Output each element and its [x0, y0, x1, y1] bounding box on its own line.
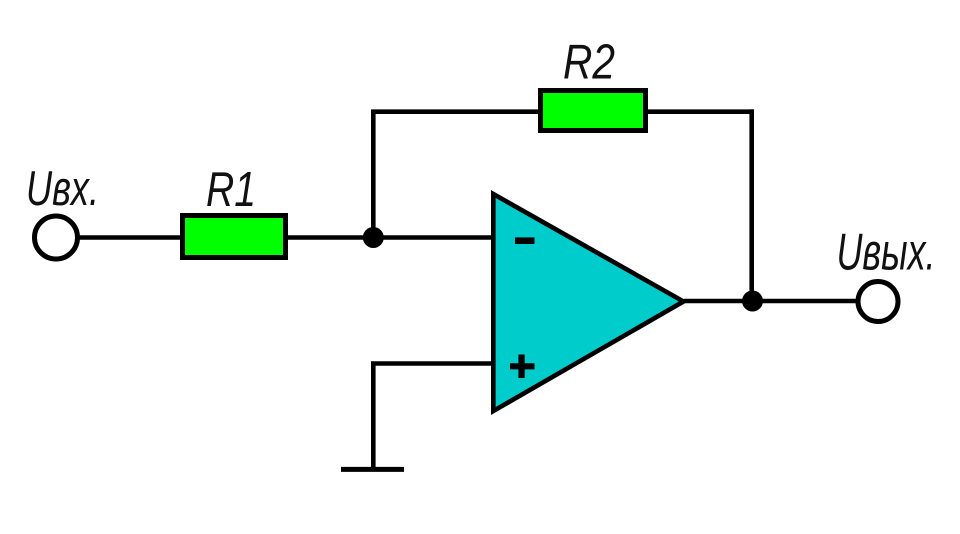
node B (output junction) — [742, 291, 763, 312]
node A (inverting input junction) — [363, 227, 384, 248]
terminal output Uвых. — [858, 282, 898, 322]
svg-text:Uвх.: Uвх. — [26, 162, 99, 216]
wire feedback down to output node — [749, 109, 754, 301]
svg-text:Uвых.: Uвых. — [837, 224, 936, 282]
resistor R2 — [541, 91, 646, 131]
wire R2 right toward output branch — [646, 109, 754, 114]
terminal input Uвх. — [35, 216, 78, 259]
wire R1 to inverting input — [288, 235, 495, 240]
op-amp U1 — [493, 194, 683, 411]
wire ground branch to non-inverting input — [371, 361, 495, 366]
wire op-amp output to terminal — [684, 299, 858, 304]
wire down to ground — [371, 364, 376, 470]
wire feedback top to R2 left — [371, 109, 540, 114]
svg-text:R2: R2 — [563, 36, 615, 90]
op-amp non-inverting pin label (plus) — [510, 355, 535, 379]
resistor R1 — [183, 216, 286, 258]
svg-text:R1: R1 — [206, 163, 256, 217]
wire input terminal to R1 — [77, 235, 182, 240]
wire node A up to feedback branch — [371, 112, 376, 238]
op-amp inverting pin label (minus) — [515, 237, 535, 244]
ground — [341, 467, 404, 472]
